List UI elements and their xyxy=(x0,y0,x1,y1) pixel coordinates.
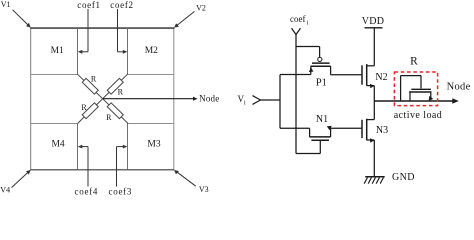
svg-text:i: i xyxy=(244,100,246,107)
svg-text:N2: N2 xyxy=(375,72,387,83)
svg-text:VDD: VDD xyxy=(362,16,385,27)
svg-text:R: R xyxy=(81,103,87,112)
svg-text:GND: GND xyxy=(392,172,415,183)
svg-text:V4: V4 xyxy=(0,186,10,195)
svg-text:R: R xyxy=(106,113,112,122)
svg-text:V1: V1 xyxy=(1,0,11,9)
svg-text:N1: N1 xyxy=(316,114,328,125)
svg-text:R: R xyxy=(410,56,418,68)
svg-text:V2: V2 xyxy=(196,3,206,12)
svg-text:coef4: coef4 xyxy=(75,187,99,197)
svg-text:M3: M3 xyxy=(147,139,160,149)
svg-text:coef1: coef1 xyxy=(77,0,101,10)
svg-text:M2: M2 xyxy=(145,46,158,56)
svg-text:coef: coef xyxy=(290,14,306,24)
svg-text:V3: V3 xyxy=(199,185,209,194)
svg-text:Node: Node xyxy=(199,93,219,103)
svg-text:M1: M1 xyxy=(51,46,64,56)
svg-text:i: i xyxy=(307,19,309,26)
svg-text:N3: N3 xyxy=(376,125,388,136)
svg-text:M4: M4 xyxy=(51,139,64,149)
svg-text:P1: P1 xyxy=(316,78,327,89)
svg-text:coef2: coef2 xyxy=(110,0,134,10)
svg-text:active load: active load xyxy=(394,110,443,121)
svg-text:R: R xyxy=(118,88,124,97)
svg-text:R: R xyxy=(91,74,97,83)
svg-text:coef3: coef3 xyxy=(109,187,133,197)
svg-text:Node: Node xyxy=(447,82,471,93)
